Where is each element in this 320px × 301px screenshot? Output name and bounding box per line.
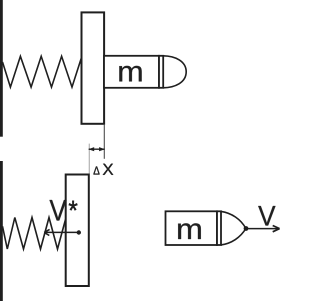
bullet nose bottom	[221, 211, 246, 245]
bullet nose collar bottom	[217, 211, 221, 245]
dimension arrowhead left	[88, 147, 94, 151]
arrowhead left barbs	[44, 229, 49, 235]
extension line dark right	[103, 125, 105, 159]
extension line gray left	[88, 144, 90, 174]
label X	[103, 164, 113, 175]
dimension line dX	[89, 148, 105, 150]
plate top piston	[82, 12, 105, 123]
spring top relaxed	[3, 56, 82, 87]
pivot dot on plate	[77, 230, 81, 234]
bullet nose top	[163, 56, 186, 88]
plate bottom piston	[66, 175, 89, 287]
wall bottom fixed support	[0, 161, 3, 301]
label V of V-star	[50, 200, 67, 220]
mass label m top	[119, 66, 141, 81]
wall top fixed support	[0, 0, 3, 137]
label star of V-star	[69, 201, 78, 211]
nose tip dot	[244, 226, 249, 231]
velocity arrow V rightward	[246, 228, 278, 230]
label delta	[94, 166, 100, 174]
mass label m bottom	[178, 223, 201, 239]
velocity arrow V-star leftward	[45, 231, 79, 233]
label V right	[258, 206, 275, 226]
bullet body bottom	[166, 211, 218, 245]
bullet nose collar top	[159, 56, 163, 88]
spring bottom compressed	[3, 218, 66, 250]
dimension arrowhead right	[99, 147, 105, 151]
arrowhead right barbs	[273, 226, 280, 232]
bullet body top	[104, 56, 159, 88]
